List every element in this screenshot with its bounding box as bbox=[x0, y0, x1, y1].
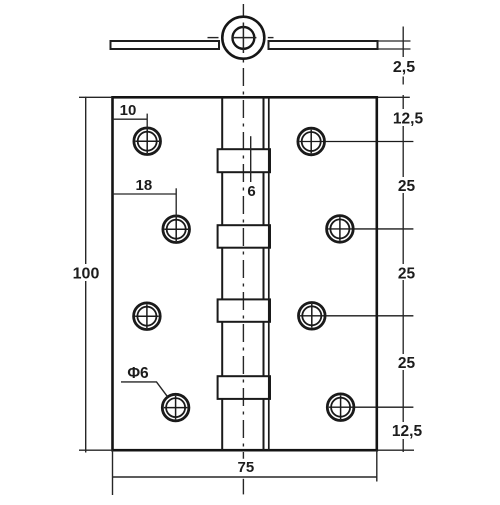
bearing band 4 bbox=[218, 376, 270, 399]
barrel right edge line (segments between bearing bands) bbox=[263, 97, 265, 450]
svg-text:18: 18 bbox=[136, 177, 153, 194]
dimension 75 label bbox=[233, 459, 259, 476]
dimension 2,5 extension lines bbox=[379, 27, 411, 85]
svg-text:10: 10 bbox=[120, 102, 137, 119]
screw hole L4 bbox=[162, 394, 189, 421]
dimension Φ6 leader bbox=[121, 382, 168, 397]
svg-text:12,5: 12,5 bbox=[392, 423, 423, 440]
svg-text:25: 25 bbox=[398, 178, 416, 195]
top view: knuckle outer circle bbox=[222, 17, 264, 59]
label 12,5 top bbox=[390, 109, 426, 127]
svg-text:75: 75 bbox=[238, 459, 255, 476]
main view: hinge outline rectangle bbox=[113, 97, 377, 450]
screw hole L1 bbox=[134, 128, 161, 155]
label 25 first bbox=[396, 177, 417, 195]
right chain tick bottom bbox=[378, 449, 414, 451]
bearing band 2 bbox=[218, 225, 270, 248]
dimension 100 extension lines bbox=[79, 97, 113, 453]
svg-text:2,5: 2,5 bbox=[393, 59, 415, 76]
screw hole R3 bbox=[299, 303, 414, 330]
top view: horizontal centerline dashes bbox=[208, 37, 274, 39]
dimension 6 label bbox=[245, 182, 258, 200]
top view: pin vertical centerline inside circle bbox=[242, 23, 244, 54]
svg-text:25: 25 bbox=[398, 265, 416, 282]
screw hole L2 bbox=[163, 216, 190, 243]
dimension 18 bbox=[113, 188, 177, 218]
top view: right leaf plate bbox=[269, 41, 378, 49]
right dimension chain line bbox=[402, 95, 404, 452]
barrel left edge line (segments between bearing bands) bbox=[221, 97, 223, 450]
top view: pin bore inner circle bbox=[233, 27, 255, 49]
svg-text:12,5: 12,5 bbox=[393, 110, 424, 127]
top view: left leaf plate bbox=[111, 41, 220, 49]
dimension 75 line bbox=[113, 476, 377, 478]
pin edge extension line for dim 6 bbox=[250, 136, 252, 182]
screw hole R1 bbox=[298, 128, 413, 155]
bearing band 3 bbox=[218, 299, 270, 321]
label 25 third bbox=[396, 354, 417, 372]
svg-text:6: 6 bbox=[247, 183, 255, 200]
dimension 10 bbox=[113, 114, 148, 131]
svg-text:Φ6: Φ6 bbox=[127, 365, 149, 382]
right chain tick top bbox=[378, 96, 410, 98]
vertical centerline (hinge pin axis, dash-dot chain) bbox=[242, 4, 244, 494]
dimension 100 label bbox=[71, 264, 102, 283]
dimension 2,5 label bbox=[391, 58, 418, 76]
dimension 100 line bbox=[85, 97, 87, 453]
top view: horizontal centerline through pin bbox=[232, 37, 257, 39]
screw hole R4 bbox=[327, 394, 413, 421]
bearing band 1 bbox=[218, 149, 270, 172]
label 12,5 bottom bbox=[389, 422, 425, 440]
screw hole R2 bbox=[327, 216, 414, 243]
svg-text:25: 25 bbox=[398, 355, 416, 372]
screw hole L3 bbox=[134, 303, 161, 330]
dimension 2,5 line bbox=[402, 27, 404, 58]
label 25 second bbox=[396, 264, 417, 282]
right leaf edge line bbox=[268, 97, 270, 450]
dimension 75 extension lines bbox=[113, 450, 377, 495]
svg-text:100: 100 bbox=[73, 266, 100, 283]
